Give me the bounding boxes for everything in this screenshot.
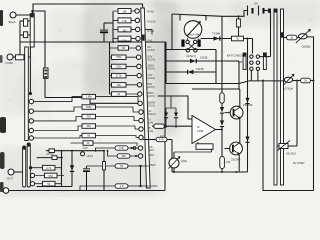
svg-text:1458: 1458: [197, 129, 204, 133]
svg-text:3V: 3V: [254, 2, 258, 6]
svg-text:1.8M: 1.8M: [86, 95, 92, 99]
svg-text:22k: 22k: [226, 160, 231, 164]
svg-text:50µA: 50µA: [8, 20, 15, 24]
svg-text:R×1k: R×1k: [148, 10, 155, 14]
svg-text:BATT.CHECK: BATT.CHECK: [227, 54, 243, 58]
svg-text:R×10: R×10: [148, 29, 155, 33]
svg-text:(ACV): (ACV): [148, 76, 155, 80]
svg-text:OUT: OUT: [7, 177, 14, 181]
svg-text:250V: 250V: [150, 163, 156, 167]
svg-text:(ACV): (ACV): [148, 85, 155, 89]
svg-text:10k: 10k: [117, 83, 122, 87]
svg-text:9V 006P: 9V 006P: [293, 161, 305, 165]
svg-text:0Ω ADJ: 0Ω ADJ: [286, 152, 296, 156]
svg-text:40.6mV: 40.6mV: [186, 54, 196, 58]
svg-text:4.5k: 4.5k: [119, 146, 125, 150]
svg-text:(mA): (mA): [148, 129, 154, 133]
svg-text:1.5V: 1.5V: [82, 146, 88, 150]
svg-text:37.5k: 37.5k: [116, 74, 123, 78]
svg-text:3M: 3M: [121, 46, 125, 50]
svg-text:TS34B: TS34B: [212, 32, 220, 36]
svg-text:4.7k: 4.7k: [159, 137, 165, 141]
svg-text:COM: COM: [6, 61, 14, 65]
svg-text:750k: 750k: [116, 55, 122, 59]
svg-text:360k: 360k: [86, 105, 92, 109]
svg-text:OFF: OFF: [238, 60, 244, 64]
svg-text:10V: 10V: [149, 148, 154, 152]
svg-text:100µA 48Ω: 100µA 48Ω: [186, 33, 201, 37]
svg-text:(50µA): (50µA): [148, 112, 156, 116]
svg-text:(1kΩB): (1kΩB): [302, 45, 311, 49]
svg-text:DC 50µA: DC 50µA: [283, 88, 294, 91]
svg-text:(2.5V): (2.5V): [148, 48, 155, 52]
svg-text:(DCV): (DCV): [148, 67, 156, 71]
svg-text:2.7k: 2.7k: [46, 166, 52, 170]
svg-text:(mA): (mA): [148, 121, 154, 125]
svg-text:1000V: 1000V: [150, 184, 158, 188]
svg-text:150k: 150k: [116, 64, 122, 68]
svg-text:(ACV): (ACV): [148, 104, 155, 108]
svg-text:1.8k: 1.8k: [122, 19, 128, 23]
svg-text:(10k): (10k): [181, 159, 187, 163]
svg-text:4.5: 4.5: [120, 184, 124, 188]
svg-text:(0.5A): (0.5A): [46, 152, 53, 156]
svg-text:R×100: R×100: [148, 19, 156, 23]
svg-text:560: 560: [49, 174, 54, 178]
svg-text:36k: 36k: [87, 124, 92, 128]
svg-text:450: 450: [121, 154, 126, 158]
svg-text:UM-3: UM-3: [87, 154, 94, 158]
svg-text:90k: 90k: [87, 115, 92, 119]
svg-text:ACV: ACV: [160, 134, 166, 138]
svg-text:1S188: 1S188: [196, 67, 204, 71]
svg-text:180: 180: [122, 29, 127, 33]
svg-text:18k: 18k: [122, 9, 127, 13]
svg-text:(DCV): (DCV): [148, 57, 156, 61]
svg-text:2SC945: 2SC945: [231, 158, 241, 162]
svg-text:(ACV): (ACV): [148, 94, 155, 98]
svg-text:1S188: 1S188: [200, 56, 208, 60]
svg-text:R×1: R×1: [148, 39, 154, 43]
